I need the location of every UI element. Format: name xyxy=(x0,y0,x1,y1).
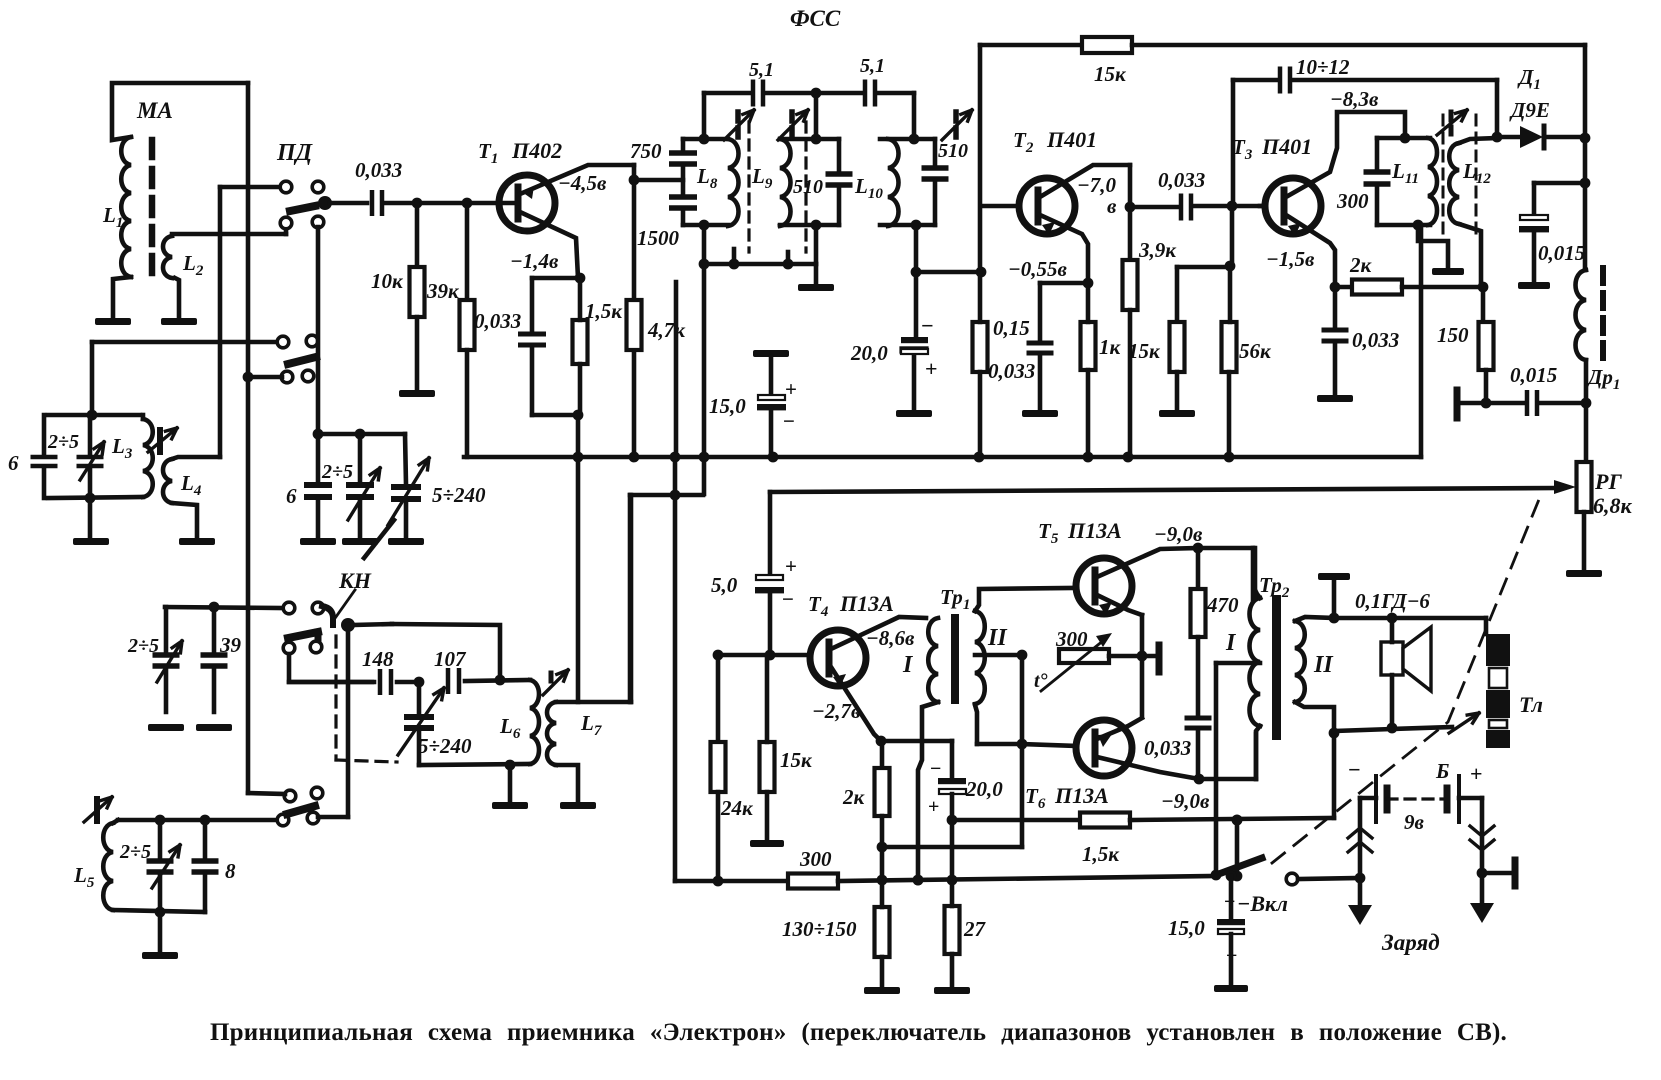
svg-text:−9,0в: −9,0в xyxy=(1154,522,1203,546)
svg-text:−8,3в: −8,3в xyxy=(1330,87,1379,111)
svg-text:6: 6 xyxy=(8,451,19,475)
svg-text:−: − xyxy=(1348,757,1361,782)
svg-text:5÷240: 5÷240 xyxy=(418,734,472,758)
svg-text:15к: 15к xyxy=(1094,62,1127,86)
svg-text:2÷5: 2÷5 xyxy=(47,431,79,453)
svg-text:15,0: 15,0 xyxy=(1168,916,1205,940)
svg-text:0,033: 0,033 xyxy=(355,158,402,182)
svg-text:II: II xyxy=(1313,652,1334,678)
svg-text:−1,5в: −1,5в xyxy=(1266,247,1315,271)
svg-text:27: 27 xyxy=(963,917,987,941)
svg-text:П13А: П13А xyxy=(1067,518,1122,543)
svg-text:1к: 1к xyxy=(1099,335,1122,359)
svg-text:−Вкл: −Вкл xyxy=(1237,891,1288,916)
svg-text:П402: П402 xyxy=(511,138,562,163)
svg-text:+: + xyxy=(785,554,797,578)
svg-text:1500: 1500 xyxy=(637,226,680,250)
svg-text:2÷5: 2÷5 xyxy=(321,461,353,483)
svg-text:−: − xyxy=(921,313,934,338)
svg-text:−8,6в: −8,6в xyxy=(866,626,915,650)
svg-text:+: + xyxy=(925,356,938,381)
svg-text:−4,5в: −4,5в xyxy=(558,171,607,195)
svg-text:0,015: 0,015 xyxy=(1510,363,1557,387)
svg-text:6: 6 xyxy=(286,484,297,508)
svg-text:39: 39 xyxy=(219,633,242,657)
svg-text:0,033: 0,033 xyxy=(1352,328,1399,352)
svg-text:I: I xyxy=(1225,630,1237,656)
svg-text:0,15: 0,15 xyxy=(993,316,1030,340)
svg-text:−9,0в: −9,0в xyxy=(1161,789,1210,813)
svg-text:510: 510 xyxy=(793,176,823,198)
svg-text:1,5к: 1,5к xyxy=(585,299,623,323)
svg-text:10÷12: 10÷12 xyxy=(1296,55,1350,79)
svg-text:в: в xyxy=(1107,194,1117,218)
svg-text:20,0: 20,0 xyxy=(850,341,888,365)
svg-text:5,1: 5,1 xyxy=(860,55,885,77)
svg-text:300: 300 xyxy=(799,847,832,871)
svg-text:ФСС: ФСС xyxy=(790,6,841,31)
svg-text:8: 8 xyxy=(225,859,236,883)
svg-text:П13А: П13А xyxy=(839,591,894,616)
svg-text:1,5к: 1,5к xyxy=(1082,842,1120,866)
svg-text:−: − xyxy=(782,587,794,611)
svg-text:5,1: 5,1 xyxy=(749,59,774,81)
svg-text:0,033: 0,033 xyxy=(1144,736,1191,760)
svg-text:0,1ГД−6: 0,1ГД−6 xyxy=(1355,589,1430,613)
svg-text:Заряд: Заряд xyxy=(1381,930,1440,955)
svg-text:15к: 15к xyxy=(780,748,813,772)
svg-text:Д9Е: Д9Е xyxy=(1509,98,1550,122)
svg-text:−0,55в: −0,55в xyxy=(1008,257,1067,281)
svg-text:39к: 39к xyxy=(426,279,460,303)
svg-text:+: + xyxy=(785,377,797,401)
svg-text:300: 300 xyxy=(1055,627,1088,651)
svg-text:510: 510 xyxy=(938,140,968,162)
svg-text:Принципиальная схема приемника: Принципиальная схема приемника «Электрон… xyxy=(210,1019,1507,1046)
svg-text:2÷5: 2÷5 xyxy=(119,841,151,863)
svg-text:П401: П401 xyxy=(1046,127,1097,152)
svg-text:II: II xyxy=(987,625,1008,651)
svg-text:5,0: 5,0 xyxy=(711,573,738,597)
svg-text:148: 148 xyxy=(362,647,394,671)
svg-text:130÷150: 130÷150 xyxy=(782,917,857,941)
svg-text:15к: 15к xyxy=(1128,339,1161,363)
svg-text:9в: 9в xyxy=(1404,810,1425,834)
svg-text:П401: П401 xyxy=(1261,134,1312,159)
svg-text:+: + xyxy=(1226,945,1237,967)
svg-text:РГ: РГ xyxy=(1594,469,1622,494)
svg-text:−: − xyxy=(930,758,941,780)
svg-text:6,8к: 6,8к xyxy=(1593,493,1633,518)
svg-text:−: − xyxy=(783,409,795,433)
svg-text:107: 107 xyxy=(434,647,467,671)
svg-text:2к: 2к xyxy=(1349,253,1373,277)
svg-text:24к: 24к xyxy=(720,796,754,820)
svg-text:МА: МА xyxy=(136,98,173,123)
svg-text:+: + xyxy=(1470,761,1483,786)
svg-text:2÷5: 2÷5 xyxy=(127,635,159,657)
svg-text:56к: 56к xyxy=(1239,339,1272,363)
svg-text:t°: t° xyxy=(1034,670,1048,692)
svg-text:I: I xyxy=(902,652,914,678)
svg-text:−1,4в: −1,4в xyxy=(510,249,559,273)
svg-text:0,033: 0,033 xyxy=(474,309,521,333)
svg-text:300: 300 xyxy=(1336,189,1369,213)
svg-text:П13А: П13А xyxy=(1054,783,1109,808)
svg-text:0,033: 0,033 xyxy=(988,359,1035,383)
svg-text:4,7к: 4,7к xyxy=(647,318,686,342)
svg-text:0,015: 0,015 xyxy=(1538,241,1585,265)
svg-text:0,033: 0,033 xyxy=(1158,168,1205,192)
svg-text:750: 750 xyxy=(630,139,662,163)
svg-text:3,9к: 3,9к xyxy=(1138,238,1177,262)
svg-text:10к: 10к xyxy=(371,269,404,293)
svg-text:470: 470 xyxy=(1206,593,1239,617)
svg-text:Тл: Тл xyxy=(1519,692,1543,717)
svg-text:−: − xyxy=(1224,891,1235,913)
svg-text:15,0: 15,0 xyxy=(709,394,746,418)
svg-text:5÷240: 5÷240 xyxy=(432,483,486,507)
svg-text:−2,7в: −2,7в xyxy=(812,699,861,723)
svg-text:20,0: 20,0 xyxy=(965,777,1003,801)
svg-text:150: 150 xyxy=(1437,323,1469,347)
svg-text:Б: Б xyxy=(1435,759,1449,783)
svg-text:2к: 2к xyxy=(842,785,866,809)
svg-text:+: + xyxy=(928,796,939,818)
svg-text:ПД: ПД xyxy=(276,140,314,166)
